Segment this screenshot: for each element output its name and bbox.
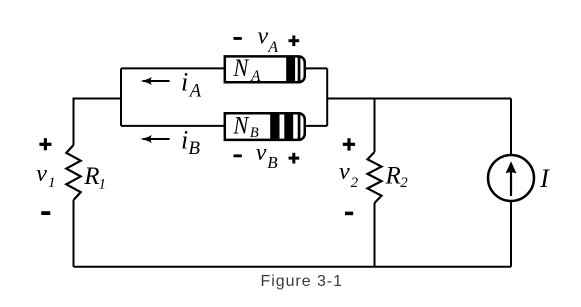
svg-text:1: 1 xyxy=(48,175,56,191)
svg-text:A: A xyxy=(267,39,278,56)
wire top-left horizontal and left vertical upper xyxy=(74,99,122,146)
label iB xyxy=(181,126,200,160)
label iA xyxy=(181,68,202,102)
svg-text:2: 2 xyxy=(351,175,359,191)
svg-text:v: v xyxy=(339,159,350,185)
svg-text:v: v xyxy=(36,161,47,187)
label R2 xyxy=(385,162,409,191)
label vA xyxy=(258,24,279,56)
minus sign of v2 xyxy=(345,212,353,216)
current arrow iA xyxy=(140,77,169,85)
label R1 xyxy=(83,163,106,193)
plus sign of vA xyxy=(289,35,300,46)
svg-text:A: A xyxy=(250,68,261,85)
current source I xyxy=(488,155,534,201)
wire bottom xyxy=(74,266,512,268)
svg-text:v: v xyxy=(258,24,269,50)
svg-text:B: B xyxy=(267,153,278,172)
wire current-source bottom xyxy=(510,202,512,267)
wire current-source top xyxy=(510,99,512,155)
svg-text:N: N xyxy=(233,113,250,140)
svg-text:I: I xyxy=(539,164,550,193)
svg-text:B: B xyxy=(250,125,259,141)
label v2 xyxy=(339,159,359,191)
label v1 xyxy=(36,161,55,191)
svg-text:i: i xyxy=(181,68,188,97)
minus sign of vA xyxy=(234,37,242,40)
svg-text:R: R xyxy=(385,162,401,189)
wire parallel-section left vertical xyxy=(120,68,122,126)
plus sign of v1 xyxy=(39,138,51,150)
svg-text:i: i xyxy=(181,126,188,155)
element NA box xyxy=(225,56,305,83)
svg-text:R: R xyxy=(83,163,99,190)
svg-text:N: N xyxy=(233,55,250,82)
current arrow iB xyxy=(140,135,169,143)
svg-text:Figure 3-1: Figure 3-1 xyxy=(261,273,343,290)
wire branch A right xyxy=(305,67,328,69)
minus sign of vB xyxy=(234,154,242,157)
wire branch B right xyxy=(305,125,328,127)
label vB xyxy=(256,140,278,172)
svg-text:1: 1 xyxy=(99,177,107,193)
wire parallel-section right vertical xyxy=(326,68,328,126)
minus sign of v1 xyxy=(41,211,50,215)
svg-text:v: v xyxy=(256,140,267,166)
svg-text:2: 2 xyxy=(400,175,408,191)
wire R2 top xyxy=(374,99,376,153)
plus sign of v2 xyxy=(343,138,355,150)
resistor R2 xyxy=(368,152,382,203)
resistor R1 xyxy=(66,145,80,200)
label NB xyxy=(233,113,259,141)
element NB box xyxy=(225,113,305,141)
wire left vertical lower xyxy=(73,200,75,267)
svg-text:B: B xyxy=(188,138,200,159)
label NA xyxy=(233,55,261,85)
plus sign of vB xyxy=(289,153,300,164)
svg-text:A: A xyxy=(188,82,202,102)
wire R2 bottom xyxy=(374,203,376,267)
wire top-right horizontal xyxy=(327,98,511,100)
wire branch A left xyxy=(121,67,224,69)
wire branch B left xyxy=(121,125,224,127)
